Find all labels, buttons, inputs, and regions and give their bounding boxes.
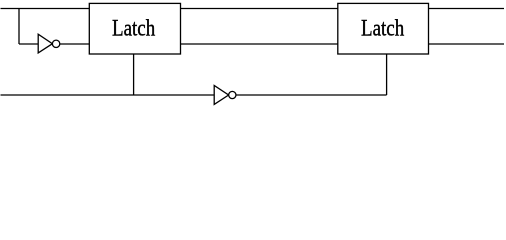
wire vertical tap from top bus to inverter input [18,9,20,45]
latch 1 box [89,3,180,54]
wire latch 2 feedback drop [386,54,388,95]
svg-text:Latch: Latch [112,16,156,41]
wire inverter U1 output to latch 1 [60,43,89,45]
inverter U1 bubble [52,40,59,47]
inverter U1 triangle [38,34,52,53]
wire inverter U1 input [19,43,38,45]
wire latch 1 feedback drop [133,54,135,95]
inverter U2 triangle [214,86,228,105]
wire top bus between latches [181,8,339,10]
latch 2 box [338,3,429,54]
wire middle bus right segment [429,43,505,45]
wire top bus right segment [429,8,505,10]
wire inverter U2 output to latch 2 drop [236,94,387,96]
wire middle bus between latches [181,43,339,45]
svg-text:Latch: Latch [361,16,405,41]
wire bottom bus to inverter U2 [1,94,215,96]
wire top bus left segment [1,8,90,10]
inverter U2 bubble [229,91,236,98]
